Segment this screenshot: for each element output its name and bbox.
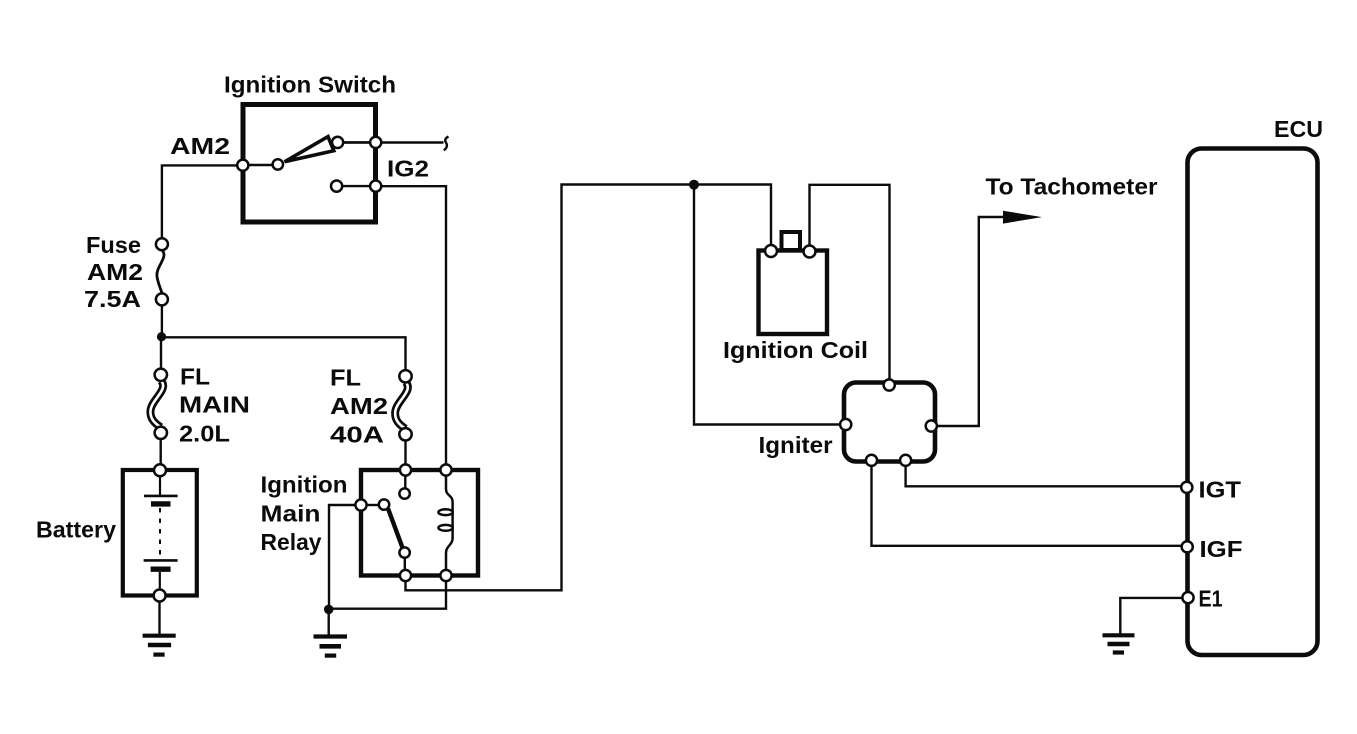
wire ground junction stem	[328, 614, 330, 635]
battery box	[123, 470, 197, 596]
igniter terminal right	[926, 420, 937, 431]
ground at E1	[1103, 635, 1135, 652]
ECU box	[1188, 149, 1318, 656]
battery internal stem bottom	[159, 572, 161, 590]
ground battery	[143, 636, 176, 655]
battery bottom terminal	[154, 590, 166, 602]
coil terminal right	[804, 246, 816, 258]
wire relay output to ignition coil junction	[406, 185, 690, 591]
igniter terminal bottom right	[900, 455, 911, 466]
svg-text:IGF: IGF	[1200, 536, 1243, 562]
svg-text:IG2: IG2	[387, 156, 429, 182]
svg-text:Relay: Relay	[261, 529, 322, 555]
svg-text:ECU: ECU	[1274, 116, 1323, 142]
battery top terminal	[154, 464, 166, 476]
fusible link FL MAIN	[150, 381, 163, 428]
svg-text:Ignition: Ignition	[261, 472, 348, 498]
wire relay coil to ground junction	[333, 581, 446, 609]
switch throw contact START	[332, 137, 343, 148]
relay terminal top right	[440, 464, 451, 475]
igniter box	[844, 383, 935, 462]
terminal ST row	[370, 137, 381, 148]
wire FL AM2 to relay	[404, 439, 406, 466]
relay coil terminal on left edge	[355, 499, 366, 510]
wire IG2 from switch to relay	[381, 186, 446, 465]
svg-text:Fuse: Fuse	[86, 232, 141, 258]
wire ignition coil right terminal to igniter top	[810, 185, 890, 380]
svg-text:AM2: AM2	[170, 133, 230, 159]
wire junction to FL AM2	[162, 337, 406, 371]
terminal E1	[1182, 592, 1193, 603]
terminal IGF	[1182, 541, 1193, 552]
battery plate short 2	[151, 567, 171, 572]
battery dashed middle	[159, 508, 161, 556]
svg-text:To Tachometer: To Tachometer	[986, 174, 1158, 200]
battery internal stem top	[159, 477, 161, 496]
relay switch blade	[388, 509, 403, 549]
wire battery to ground	[158, 601, 160, 635]
ignition switch box	[243, 105, 376, 223]
svg-text:Ignition Coil: Ignition Coil	[723, 337, 868, 363]
relay terminal bottom right	[440, 570, 451, 581]
fusible link FL AM2	[395, 382, 408, 429]
wire junction down to igniter left terminal	[694, 189, 841, 425]
relay switch fixed contact stem	[404, 476, 406, 489]
wire igniter to IGT	[906, 466, 1182, 487]
wire igniter to IGF	[872, 466, 1183, 546]
relay terminal top left	[400, 464, 411, 475]
switch blade	[285, 137, 334, 162]
wire FL MAIN to battery	[159, 439, 161, 466]
switch pole contact	[248, 164, 272, 166]
fuse AM2 element	[157, 250, 164, 293]
svg-text:IGT: IGT	[1199, 477, 1242, 503]
battery plate short -	[151, 501, 171, 506]
wire fuse bottom to junction	[161, 305, 163, 336]
igniter terminal top	[884, 379, 895, 390]
wire junction down to FL MAIN	[160, 337, 162, 370]
svg-text:Battery: Battery	[36, 517, 116, 543]
wire switch START output	[343, 141, 444, 143]
switch throw contact IG2	[331, 181, 342, 192]
svg-text:7.5A: 7.5A	[84, 286, 141, 312]
ignition main relay box	[361, 470, 478, 576]
svg-text:FL: FL	[180, 364, 210, 390]
ground at relay junction	[314, 637, 348, 656]
wire junction to ignition coil left terminal	[699, 185, 772, 246]
svg-text:Ignition Switch: Ignition Switch	[224, 72, 396, 98]
node junction at ignition coil feed	[689, 180, 699, 190]
arrowhead To Tachometer	[1003, 211, 1042, 224]
node junction fuse/battery	[157, 332, 166, 341]
svg-text:FL: FL	[330, 365, 361, 391]
svg-text:AM2: AM2	[87, 259, 143, 285]
node ground junction at relay	[324, 605, 334, 615]
ignition coil box	[759, 251, 828, 335]
wire relay coil left terminal to ground junction	[329, 505, 356, 606]
svg-text:Main: Main	[261, 501, 321, 527]
relay coil winding	[446, 476, 453, 571]
relay terminal bottom left	[400, 570, 411, 581]
svg-text:2.0L: 2.0L	[179, 421, 230, 447]
battery plate long +	[144, 495, 178, 498]
svg-text:Igniter: Igniter	[759, 432, 833, 458]
igniter terminal left	[840, 419, 851, 430]
terminal AM2	[237, 160, 248, 171]
svg-text:MAIN: MAIN	[179, 392, 250, 418]
wire end hook	[444, 137, 449, 151]
svg-text:E1: E1	[1199, 586, 1223, 612]
wire E1 to ground	[1120, 598, 1183, 634]
battery plate long 2	[144, 559, 178, 562]
wire igniter right terminal to tachometer	[937, 217, 1010, 426]
ignition coil HT nub	[782, 232, 801, 250]
igniter terminal bottom left	[866, 455, 877, 466]
coil terminal left	[765, 245, 777, 257]
terminal IG2	[370, 181, 381, 192]
terminal IGT	[1181, 482, 1192, 493]
svg-text:40A: 40A	[330, 422, 384, 448]
wire AM2 from ignition switch to fuse	[162, 165, 237, 238]
svg-text:AM2: AM2	[330, 393, 388, 419]
